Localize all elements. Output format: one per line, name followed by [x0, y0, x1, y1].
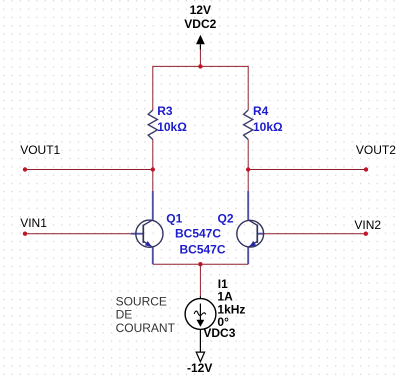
power supply arrow VDC3 (-12V) [196, 352, 204, 362]
node junction dot VOUT2/collector [246, 167, 250, 171]
svg-text:Q1: Q1 [166, 211, 182, 225]
node junction dot emitter rail [198, 262, 202, 266]
node junction dot VOUT1/collector [151, 167, 155, 171]
label Q2 [218, 211, 234, 225]
label I1 [218, 277, 228, 291]
svg-text:VIN2: VIN2 [354, 218, 381, 232]
label VOUT1 [20, 143, 60, 157]
transistor Q1 BC547C [131, 191, 163, 264]
wire top rail to R4 [247, 66, 249, 110]
label 0 degrees [217, 315, 229, 329]
svg-text:VOUT2: VOUT2 [356, 143, 396, 157]
label BC547C (Q2 value) [180, 243, 226, 257]
svg-text:DE: DE [116, 308, 133, 322]
wire R4 to Q2 collector [247, 140, 249, 193]
svg-text:12V: 12V [190, 3, 211, 17]
wire VOUT1 [25, 169, 153, 171]
wire VIN1 to Q1 base [25, 233, 131, 235]
wire VIN2 to Q2 base [264, 233, 366, 235]
wire top rail [153, 65, 248, 67]
svg-text:1A: 1A [217, 289, 233, 303]
node VIN2 terminal dot [364, 232, 368, 236]
label R4 [253, 104, 269, 118]
svg-text:VDC3: VDC3 [203, 326, 235, 340]
svg-text:Q2: Q2 [218, 211, 234, 225]
label VDC3 [203, 326, 235, 340]
svg-text:10kΩ: 10kΩ [253, 120, 283, 134]
resistor R4 [244, 110, 253, 140]
label 12V (VDC2 value) [190, 3, 211, 17]
label VDC2 [184, 17, 216, 31]
svg-text:VDC2: VDC2 [184, 17, 216, 31]
resistor R3 [148, 110, 157, 140]
svg-text:SOURCE: SOURCE [116, 295, 167, 309]
label SOURCE DE COURANT [116, 295, 176, 335]
label VIN1 [20, 216, 47, 230]
label 10kΩ (R4 value) [253, 120, 283, 134]
svg-text:BC547C: BC547C [180, 243, 226, 257]
label 1kHz [217, 302, 245, 316]
svg-text:COURANT: COURANT [116, 321, 176, 335]
label VOUT2 [356, 143, 396, 157]
svg-text:-12V: -12V [187, 361, 212, 375]
power supply arrow VDC2 (+12V) [196, 35, 205, 50]
label 10kΩ (R3 value) [157, 120, 187, 134]
wire VDC2 to top rail [199, 50, 201, 67]
node junction dot top rail [198, 64, 202, 68]
node VOUT2 terminal dot [364, 167, 368, 171]
label VIN2 [354, 218, 381, 232]
current source I1 [185, 296, 216, 352]
label -12V [187, 361, 212, 375]
svg-text:BC547C: BC547C [175, 226, 221, 240]
label Q1 [166, 211, 182, 225]
wire emitter rail [153, 263, 248, 265]
label 1A [217, 289, 233, 303]
svg-text:VIN1: VIN1 [20, 216, 47, 230]
svg-text:R4: R4 [253, 104, 269, 118]
node VIN1 terminal dot [23, 232, 27, 236]
node VOUT1 terminal dot [23, 167, 27, 171]
svg-text:10kΩ: 10kΩ [157, 120, 187, 134]
svg-text:VOUT1: VOUT1 [20, 143, 60, 157]
transistor Q2 BC547C [237, 191, 264, 264]
label R3 [157, 104, 173, 118]
label BC547C (Q1 value) [175, 226, 221, 240]
wire VOUT2 [248, 169, 366, 171]
wire emitter rail to I1 [199, 264, 201, 296]
wire R3 to Q1 collector [152, 140, 154, 193]
wire top rail to R3 [152, 66, 154, 110]
svg-text:R3: R3 [157, 104, 173, 118]
